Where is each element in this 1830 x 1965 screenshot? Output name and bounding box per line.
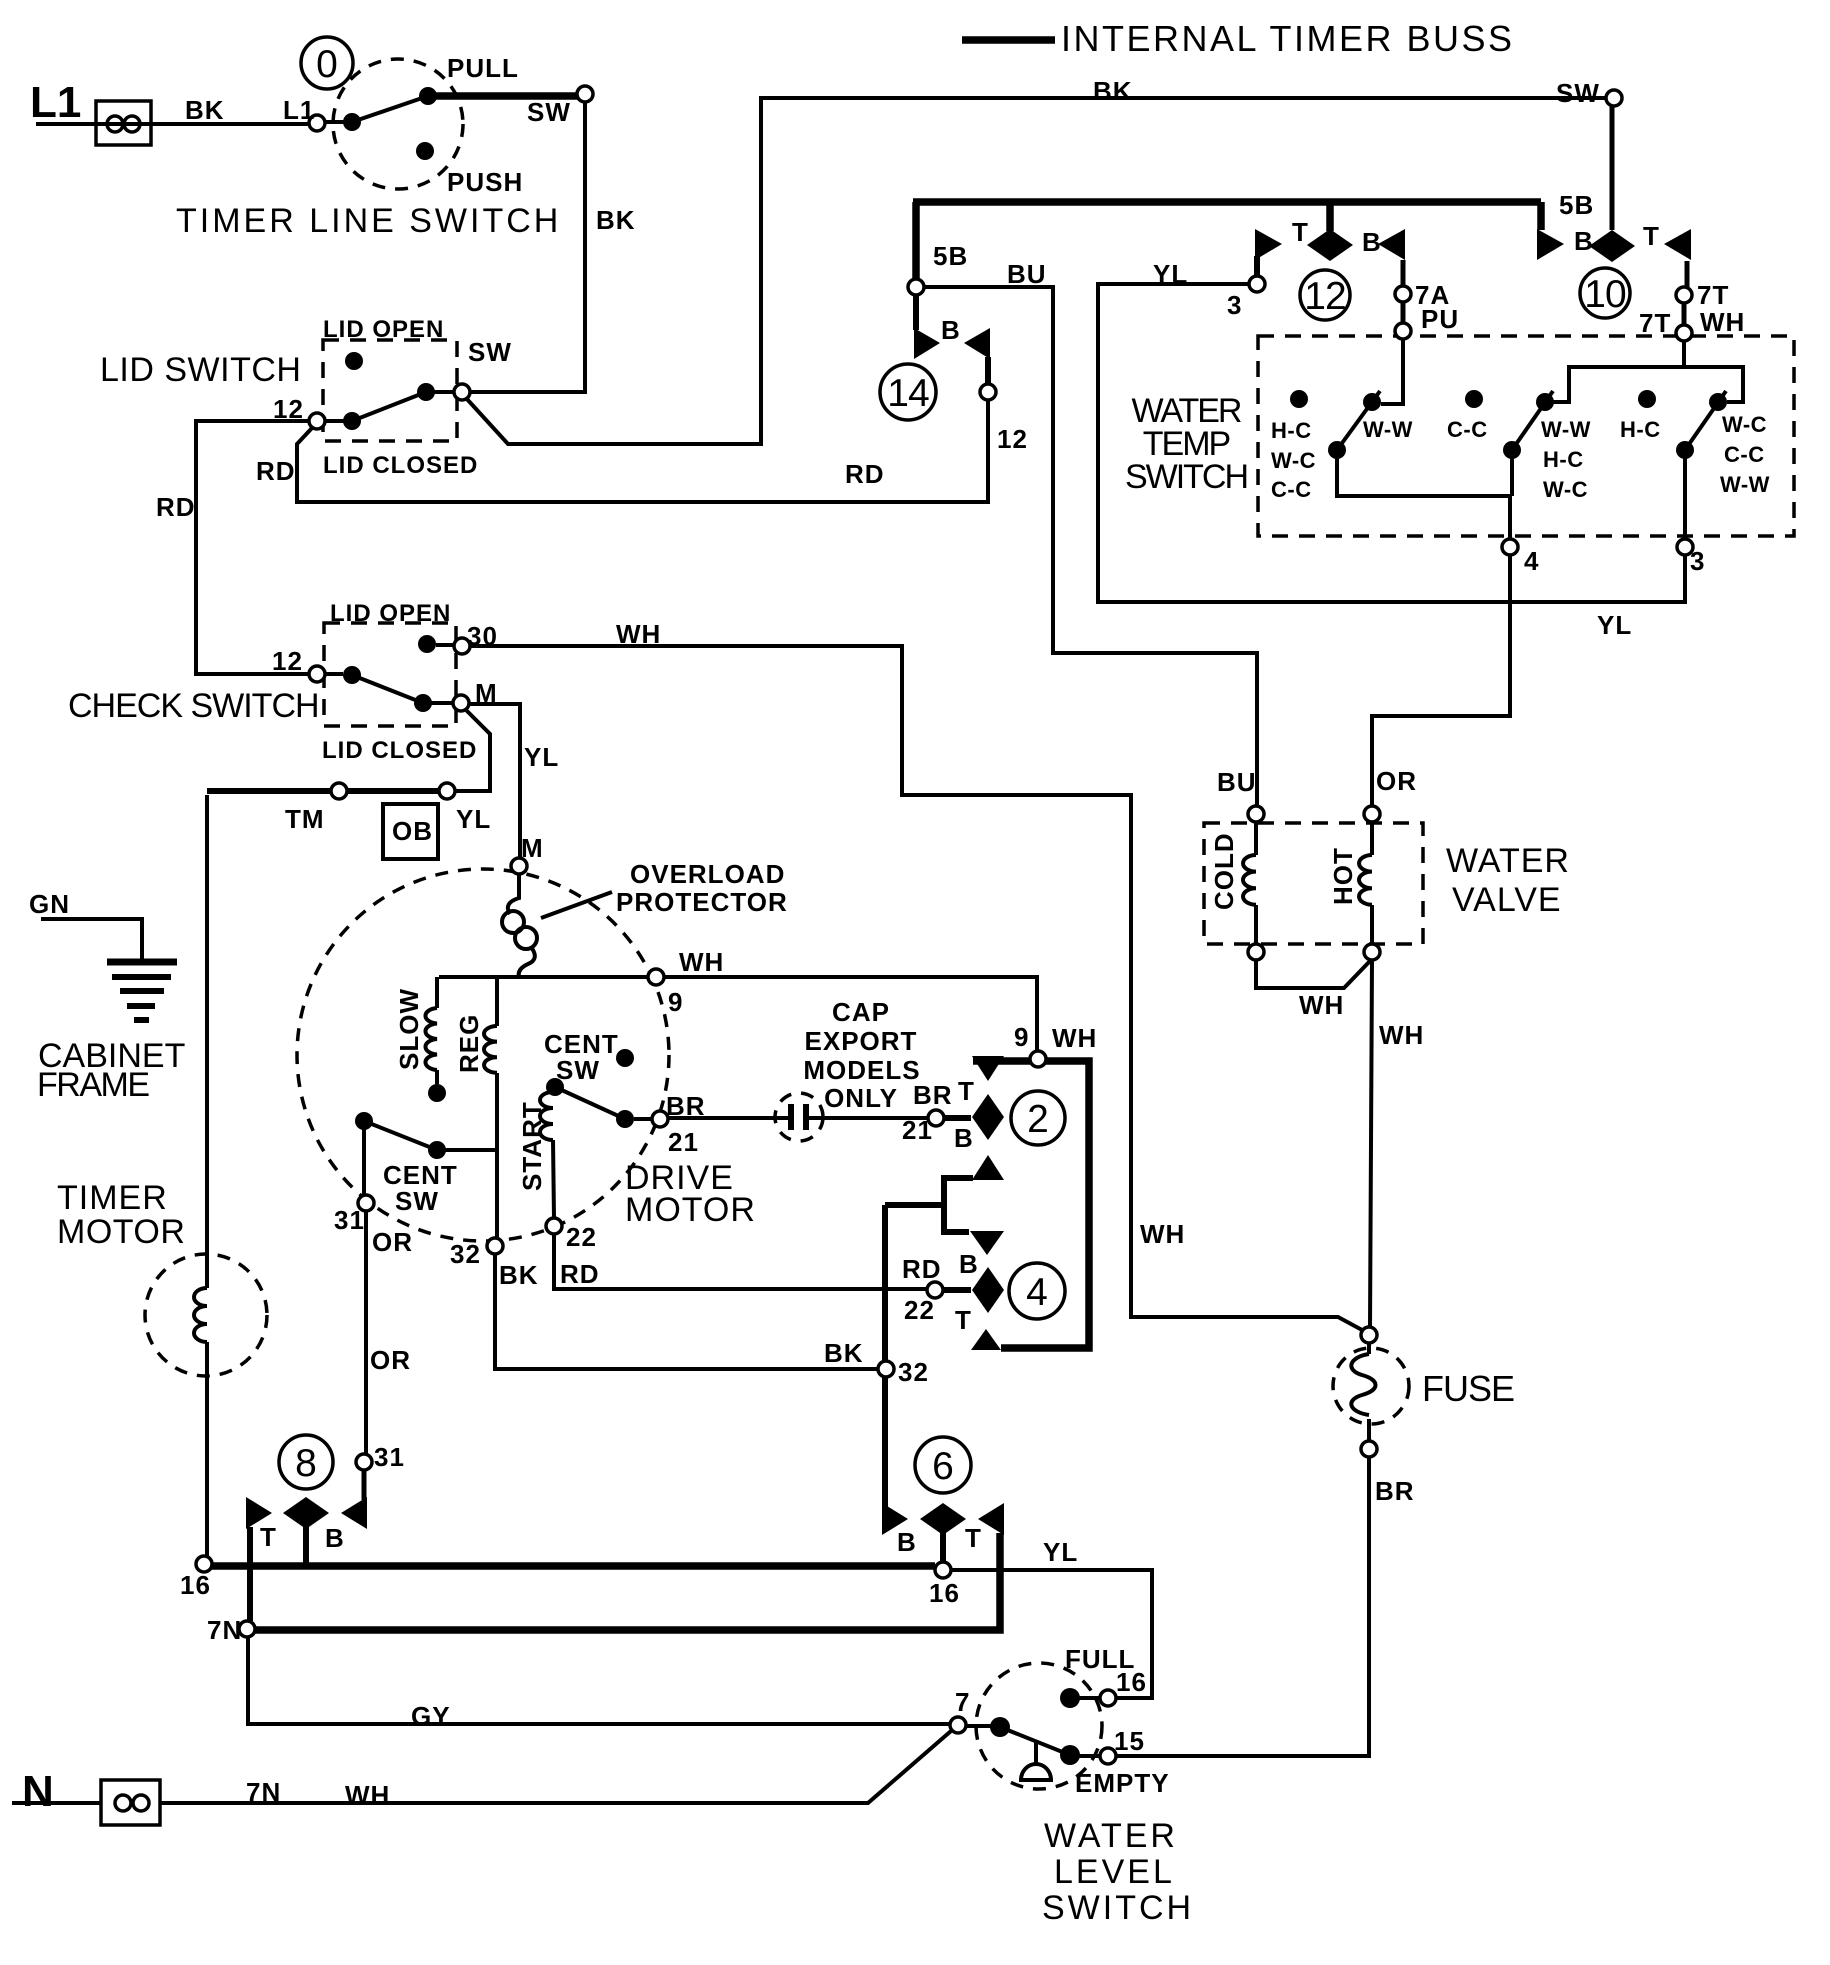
svg-text:15: 15 [1114,1726,1145,1756]
svg-text:3: 3 [1690,546,1705,576]
svg-text:LID SWITCH: LID SWITCH [100,351,301,389]
svg-text:WH: WH [1052,1023,1097,1053]
svg-text:H-C: H-C [1271,418,1312,443]
svg-text:W-C: W-C [1722,412,1767,437]
svg-text:WH: WH [616,619,661,649]
svg-text:H-C: H-C [1620,417,1661,442]
svg-text:T: T [955,1305,972,1335]
svg-text:W-C: W-C [1543,477,1588,502]
svg-text:7N: 7N [246,1777,281,1807]
svg-text:7N: 7N [207,1615,242,1645]
svg-text:TIMER LINE SWITCH: TIMER LINE SWITCH [176,202,561,240]
svg-text:32: 32 [898,1357,929,1387]
svg-text:SWITCH: SWITCH [1042,1889,1194,1927]
svg-text:6: 6 [932,1445,954,1488]
svg-text:YL: YL [1043,1537,1078,1567]
svg-text:YL: YL [1153,259,1188,289]
svg-text:BR: BR [913,1080,953,1110]
svg-text:T: T [965,1523,982,1553]
svg-text:30: 30 [467,621,498,651]
svg-text:CAP: CAP [832,997,890,1027]
svg-text:BK: BK [499,1260,539,1290]
svg-text:RD: RD [156,492,196,522]
svg-text:EMPTY: EMPTY [1075,1768,1170,1798]
svg-text:12: 12 [272,646,303,676]
svg-text:L1: L1 [30,78,81,127]
svg-text:W-W: W-W [1541,417,1591,442]
svg-text:ONLY: ONLY [824,1083,898,1113]
svg-text:16: 16 [1116,1667,1147,1697]
svg-text:L1: L1 [283,95,315,125]
svg-text:GY: GY [411,1701,451,1731]
svg-text:OB: OB [392,816,433,846]
svg-text:YL: YL [456,804,491,834]
svg-text:YL: YL [1597,610,1632,640]
svg-text:3: 3 [1227,290,1242,320]
svg-text:31: 31 [374,1442,405,1472]
svg-text:5B: 5B [1559,190,1594,220]
svg-text:PROTECTOR: PROTECTOR [616,887,788,917]
svg-text:OR: OR [1376,766,1417,796]
svg-text:EXPORT: EXPORT [805,1026,918,1056]
svg-text:4: 4 [1524,546,1539,576]
svg-text:32: 32 [450,1239,481,1269]
svg-text:FUSE: FUSE [1422,1368,1514,1409]
svg-text:9: 9 [1014,1022,1029,1052]
svg-text:PU: PU [1421,304,1459,334]
svg-text:BU: BU [1217,767,1257,797]
svg-text:9: 9 [668,987,683,1017]
svg-text:B: B [897,1527,917,1557]
svg-text:MOTOR: MOTOR [57,1213,185,1251]
svg-text:SW: SW [468,337,512,367]
svg-text:COLD: COLD [1209,832,1239,910]
svg-text:C-C: C-C [1447,417,1488,442]
svg-text:BU: BU [1007,259,1047,289]
svg-text:7: 7 [955,1687,970,1717]
svg-text:BR: BR [1375,1476,1415,1506]
svg-text:LEVEL: LEVEL [1054,1853,1175,1891]
svg-text:B: B [941,315,961,345]
svg-text:RD: RD [845,459,885,489]
svg-text:W-C: W-C [1271,448,1316,473]
svg-text:LID CLOSED: LID CLOSED [323,452,478,479]
svg-text:SLOW: SLOW [394,988,424,1070]
svg-text:W-W: W-W [1720,472,1770,497]
svg-text:BK: BK [824,1338,864,1368]
svg-text:YL: YL [524,742,559,772]
svg-text:OR: OR [372,1227,413,1257]
svg-text:4: 4 [1026,1271,1048,1314]
svg-text:0: 0 [316,43,338,86]
svg-text:M: M [521,833,544,863]
svg-text:7T: 7T [1697,280,1729,310]
svg-text:B: B [325,1523,345,1553]
svg-text:12: 12 [1304,275,1345,318]
svg-text:WH: WH [1379,1020,1424,1050]
svg-text:T: T [958,1076,975,1106]
svg-text:12: 12 [273,394,304,424]
svg-text:16: 16 [929,1578,960,1608]
svg-text:RD: RD [256,456,296,486]
svg-text:CHECK SWITCH: CHECK SWITCH [68,687,319,725]
svg-text:22: 22 [904,1295,935,1325]
svg-text:SW: SW [556,1055,600,1085]
svg-text:BK: BK [185,95,225,125]
svg-text:TM: TM [285,804,325,834]
svg-text:WH: WH [679,947,724,977]
svg-text:C-C: C-C [1271,477,1312,502]
svg-text:16: 16 [180,1570,211,1600]
svg-text:SW: SW [1556,78,1600,108]
svg-text:SWITCH: SWITCH [1125,458,1247,496]
svg-text:LID CLOSED: LID CLOSED [322,737,477,764]
svg-text:B: B [954,1123,974,1153]
svg-text:GN: GN [29,889,70,919]
svg-text:B: B [1362,227,1382,257]
svg-text:C-C: C-C [1724,442,1765,467]
svg-text:7T: 7T [1639,308,1671,338]
svg-text:12: 12 [997,424,1028,454]
svg-text:SW: SW [527,97,571,127]
svg-text:WATER: WATER [1044,1817,1178,1855]
svg-text:M: M [475,678,498,708]
svg-text:PUSH: PUSH [447,167,523,197]
svg-text:W-W: W-W [1363,417,1413,442]
svg-text:T: T [260,1522,277,1552]
svg-text:INTERNAL TIMER BUSS: INTERNAL TIMER BUSS [1061,18,1515,59]
svg-text:SW: SW [395,1186,439,1216]
svg-text:LID OPEN: LID OPEN [323,316,444,343]
svg-text:BK: BK [1093,76,1133,106]
svg-text:MOTOR: MOTOR [625,1191,756,1229]
svg-text:REG: REG [454,1014,484,1073]
svg-text:BK: BK [596,205,636,235]
svg-text:WATER: WATER [1446,842,1570,880]
svg-text:14: 14 [887,372,929,415]
svg-text:WH: WH [345,1780,390,1810]
svg-text:8: 8 [295,1442,317,1485]
svg-text:RD: RD [560,1259,600,1289]
svg-text:WH: WH [1700,307,1745,337]
svg-text:PULL: PULL [447,53,519,83]
svg-text:10: 10 [1584,273,1626,316]
svg-text:T: T [1292,217,1309,247]
svg-text:BR: BR [666,1091,706,1121]
svg-text:FRAME: FRAME [37,1066,149,1104]
svg-text:START: START [517,1101,547,1191]
svg-text:H-C: H-C [1543,447,1584,472]
svg-text:MODELS: MODELS [803,1055,920,1085]
svg-text:WH: WH [1140,1219,1185,1249]
svg-text:5B: 5B [933,241,968,271]
svg-text:22: 22 [566,1222,597,1252]
svg-text:31: 31 [334,1205,365,1235]
svg-text:TIMER: TIMER [57,1179,168,1217]
svg-text:21: 21 [902,1115,933,1145]
svg-text:N: N [22,1767,54,1816]
svg-text:LID OPEN: LID OPEN [330,600,451,627]
svg-text:21: 21 [668,1127,699,1157]
svg-text:RD: RD [902,1254,942,1284]
svg-text:HOT: HOT [1328,847,1358,905]
svg-text:OVERLOAD: OVERLOAD [630,859,785,889]
svg-text:B: B [1574,226,1594,256]
svg-text:B: B [959,1249,979,1279]
svg-text:WH: WH [1299,990,1344,1020]
svg-text:VALVE: VALVE [1452,881,1562,919]
svg-text:T: T [1643,221,1660,251]
svg-text:2: 2 [1027,1098,1049,1141]
svg-text:OR: OR [370,1345,411,1375]
